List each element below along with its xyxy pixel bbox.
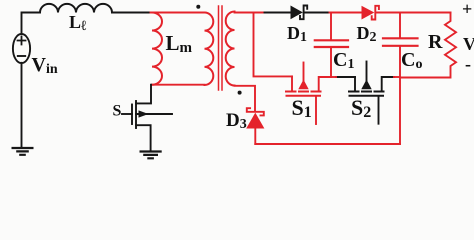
capacitor C1 plates — [315, 40, 348, 47]
ground (left) — [13, 148, 33, 155]
inductor Ll — [40, 4, 112, 13]
S1 gate lead — [315, 97, 317, 125]
plus sign of Vin — [18, 37, 26, 45]
wire top (red) Lm to primary — [151, 12, 205, 14]
arrow of S — [139, 110, 149, 117]
cathode bar D1 (schottky) — [300, 6, 307, 20]
node wire A: top node down to S1 drain (red) — [254, 13, 293, 77]
cathode bar D3 (schottky) — [247, 108, 264, 115]
wire secondary bottom to D3 (red) — [235, 86, 256, 111]
S2 right lead — [382, 77, 394, 91]
svg-text:S1: S1 — [292, 95, 312, 121]
diode D2 — [362, 6, 375, 20]
wire Vin bottom to ground — [21, 63, 23, 148]
source stub of S — [136, 125, 151, 151]
svg-text:D3: D3 — [226, 110, 247, 132]
svg-text:V: V — [463, 34, 474, 54]
wire red part of junction under C1 — [331, 76, 336, 78]
svg-text:C1: C1 — [333, 49, 354, 72]
S2 left lead — [354, 77, 356, 91]
svg-text:D1: D1 — [287, 23, 307, 45]
inductor Lm — [152, 13, 162, 85]
S1 left lead — [291, 76, 293, 90]
transistor S (MOSFET) — [122, 101, 172, 152]
S1 arrow — [298, 80, 308, 90]
S1 body stem — [303, 63, 305, 82]
transformer secondary winding — [226, 12, 235, 86]
wire drain of S up to Lm bottom (black) — [136, 85, 151, 104]
diode D3 — [246, 113, 264, 129]
svg-text:S: S — [113, 103, 122, 120]
capacitor C1 top lead — [330, 13, 332, 40]
capacitor C1 bottom lead — [330, 48, 332, 77]
wire D2 cathode to R (red) — [376, 12, 451, 14]
S2 gate lead — [378, 97, 380, 124]
gate lead of S — [122, 113, 132, 115]
svg-text:Vin: Vin — [32, 54, 58, 77]
wire S2 drain to Co lead (red) — [394, 76, 400, 78]
wire Lm bottom to primary bottom (red) — [152, 84, 205, 86]
svg-text:D2: D2 — [357, 23, 377, 45]
svg-text:R: R — [428, 31, 443, 53]
svg-text:Lℓ: Lℓ — [69, 12, 87, 34]
switch S2 (black MOSFET) — [349, 62, 394, 124]
wire node C1 to D2 (red) — [330, 12, 362, 14]
S1 right lead — [319, 77, 331, 91]
channel bar of S — [135, 101, 137, 128]
wire C1 bottom to S2 drain (black) — [336, 76, 355, 78]
S1 gate bar — [287, 95, 321, 97]
transformer core — [219, 6, 223, 90]
wire D3 anode to bottom rail — [254, 129, 256, 145]
capacitor Co plates — [383, 38, 418, 46]
voltage source Vin — [13, 34, 30, 63]
minus sign of Vin — [18, 55, 25, 57]
transformer primary winding — [205, 13, 214, 85]
body line with arrow of S — [136, 113, 172, 115]
S2 gate bar — [350, 95, 384, 97]
wire D1 anode (black) — [265, 12, 291, 14]
dot secondary — [238, 91, 242, 95]
svg-text:-: - — [465, 54, 471, 74]
svg-text:S2: S2 — [351, 95, 371, 121]
wire secondary top to D1 (red) — [235, 12, 265, 14]
switch S1 (red MOSFET) — [286, 63, 331, 125]
S2 channel segments — [349, 91, 384, 93]
wire D1 cathode to node C1 (black) — [304, 12, 330, 14]
S2 body stem — [366, 62, 368, 82]
diode D1 — [291, 6, 303, 20]
wire Ll to transformer — [112, 12, 151, 14]
wire Vin top to inductor — [22, 13, 41, 35]
bottom rail (red) — [255, 143, 400, 145]
dot primary — [196, 5, 200, 9]
S1 channel segments — [286, 91, 321, 93]
S2 arrow — [361, 80, 371, 90]
svg-text:Lm: Lm — [166, 31, 193, 56]
cathode bar D2 (schottky) — [372, 6, 379, 20]
gate bar of S — [131, 105, 133, 125]
capacitor Co top lead — [399, 13, 401, 38]
capacitor Co bottom lead — [399, 47, 401, 144]
ground (under S) — [141, 152, 161, 159]
svg-text:Co: Co — [401, 49, 422, 72]
svg-text:+: + — [462, 0, 472, 19]
resistor R — [400, 13, 456, 78]
